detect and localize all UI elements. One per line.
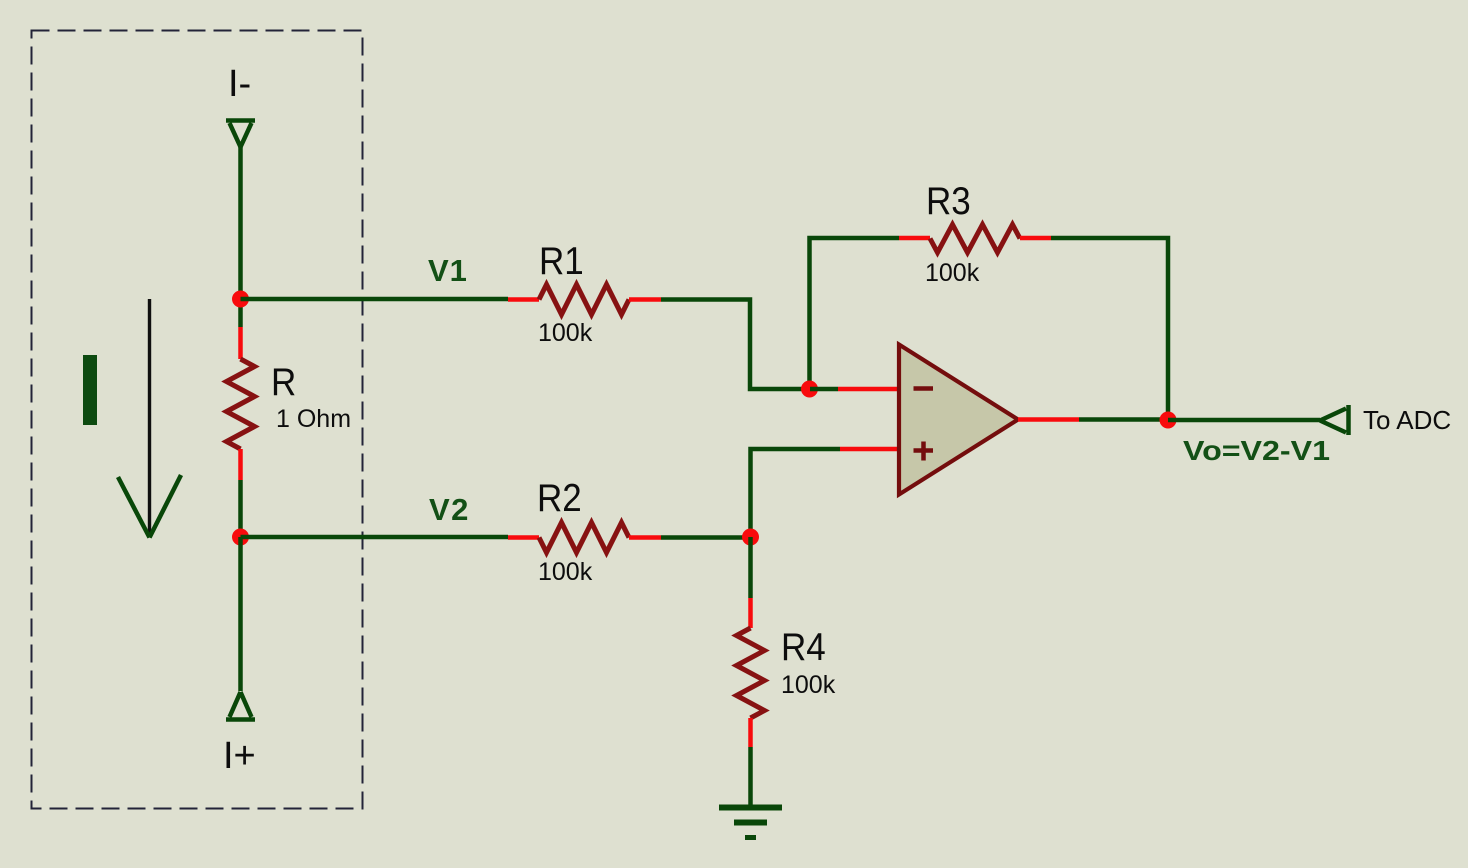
wire V1 — [241, 297, 509, 302]
svg-text:R4: R4 — [781, 624, 826, 668]
svg-text:V2: V2 — [429, 492, 470, 527]
resistor R3 pin left — [899, 236, 930, 241]
wire V2 — [241, 535, 509, 540]
resistor R2 pin left — [508, 535, 539, 540]
wire V2 node to terminal I+ — [238, 537, 243, 691]
resistor R1 pin left — [508, 297, 539, 302]
svg-text:100k: 100k — [538, 319, 593, 347]
svg-text:Vo=V2-V1: Vo=V2-V1 — [1183, 436, 1330, 467]
resistor R2 pin right — [629, 535, 661, 540]
resistor R3 body — [930, 225, 1020, 253]
wire node to R4 — [748, 537, 753, 598]
node V1 junction — [232, 291, 249, 308]
svg-text:I+: I+ — [223, 735, 256, 777]
terminal I+ — [226, 692, 255, 720]
resistor R1 body — [539, 285, 629, 315]
terminal I- — [226, 121, 255, 148]
op-amp plus sign — [914, 442, 934, 461]
wire R4 to ground — [748, 747, 753, 807]
current arrow shaft — [148, 299, 151, 537]
svg-text:R2: R2 — [537, 475, 582, 519]
resistor R4 pin top — [748, 598, 753, 628]
svg-text:V1: V1 — [428, 253, 468, 288]
svg-text:R: R — [271, 359, 296, 403]
resistor R2 body — [539, 523, 629, 553]
resistor R4 pin bottom — [748, 718, 753, 747]
node output — [1160, 412, 1177, 429]
op-amp minus sign — [914, 386, 934, 391]
current arrow head — [118, 475, 181, 538]
node inverting input — [801, 381, 818, 398]
resistor R1 pin right — [629, 297, 661, 302]
resistor R body — [227, 359, 255, 449]
pin wire non-inverting input — [840, 447, 899, 452]
svg-text:R3: R3 — [926, 178, 971, 222]
wire R2 to V2 node — [661, 535, 755, 540]
svg-text:100k: 100k — [925, 259, 980, 287]
current label I — [83, 355, 97, 425]
wire output node to ADC terminal — [1168, 418, 1320, 423]
wire V2 node to plus input — [751, 449, 841, 537]
svg-text:To ADC: To ADC — [1363, 405, 1451, 435]
pin wire inverting input — [810, 387, 838, 392]
wire R3 to output node — [1051, 238, 1168, 420]
wire R1 to inverting node — [661, 300, 810, 390]
ground — [719, 808, 782, 838]
resistor R4 body — [737, 628, 765, 718]
svg-text:R1: R1 — [539, 238, 584, 282]
resistor R3 pin right — [1020, 236, 1051, 241]
resistor R pin top — [238, 299, 243, 327]
svg-text:1 Ohm: 1 Ohm — [276, 405, 351, 433]
wire output to node — [1079, 417, 1168, 422]
svg-text:I-: I- — [228, 63, 251, 105]
resistor R pin bottom — [238, 449, 243, 480]
wire terminal I- to node V1 — [238, 147, 243, 299]
svg-text:100k: 100k — [538, 558, 593, 586]
current source dashed box — [32, 31, 363, 809]
op-amp output pin — [1018, 417, 1079, 422]
feedback wire up to R3 — [810, 238, 900, 389]
svg-text:100k: 100k — [781, 671, 836, 699]
node plus junction — [742, 529, 759, 546]
op-amp U1 body — [899, 345, 1018, 495]
node V2 junction — [232, 529, 249, 546]
terminal To ADC — [1320, 405, 1349, 435]
